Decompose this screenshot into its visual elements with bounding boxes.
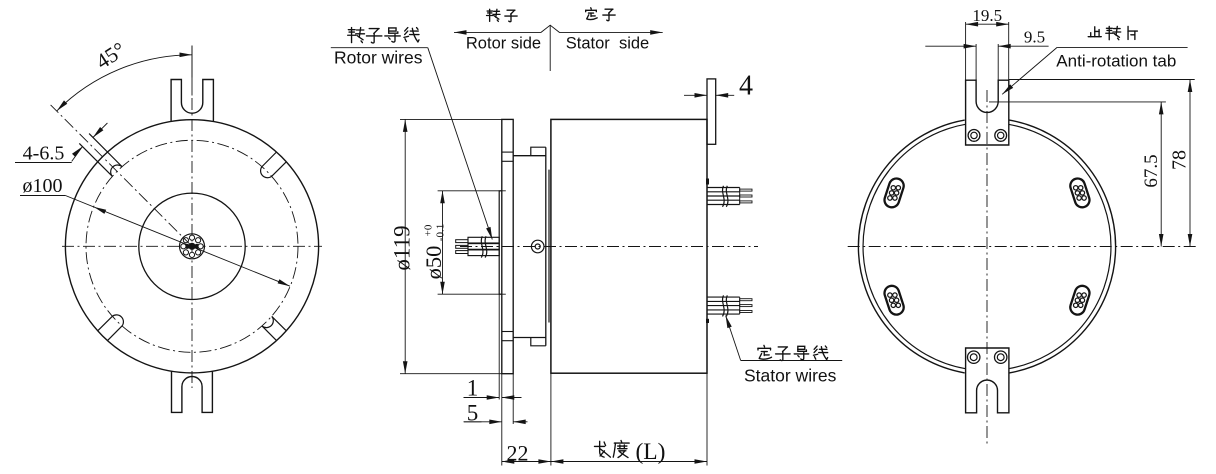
svg-text:4: 4 [739,71,753,102]
right view: vertical centerline [986,90,988,444]
left view: slot radial centerline 135deg [51,105,192,246]
middle view: anti-rotation tab (side, 4mm) [707,79,716,144]
middle view: Ø50 boss disc (1mm) on flange face [499,191,502,294]
dimension 45deg arc [191,46,193,78]
stator wires leader [741,360,843,362]
rotor wires leader [331,47,428,49]
dimension 4-6.5 width arrows [72,147,83,158]
middle view: rotor hub [513,155,546,157]
left view: horizontal centerline [62,245,322,247]
label 转子 (rotor) [487,9,500,21]
right view: bottom fork tab [966,348,1009,413]
dimension 9.5 [975,44,977,80]
svg-text:22: 22 [507,441,529,466]
svg-text:ø100: ø100 [23,175,63,197]
left view: wire bundle center cluster [188,243,195,250]
middle view: rotor flange plate (5mm) [502,119,513,373]
middle view: stator body Ø119 [551,119,707,373]
rotor wire lashing bands [481,236,483,257]
label 定子导线 (stator wires) [758,345,772,359]
dimension 67.5 [989,101,1166,103]
svg-text:+0: +0 [423,224,435,236]
right view: bottom tab screws [968,351,980,363]
middle view: flange hub-bore lines lower [502,331,513,333]
right view: wire slot upper-left [883,177,906,210]
svg-text:67.5: 67.5 [1141,154,1162,187]
svg-text:1: 1 [467,376,479,401]
left view: inner rotor circle Ø50 [139,193,245,299]
label 定子 (stator) [586,8,597,20]
left view: mounting slot lower-right [262,326,276,341]
dimension 长度(L) [706,373,708,465]
dimension 5 (flange thickness) [512,374,514,424]
dimension Ø119 left [400,118,502,120]
left view: center wire bundle outer circle [180,234,205,259]
svg-text:ø119: ø119 [390,225,415,270]
left view: top fork tab [171,80,213,122]
svg-text:(L): (L) [635,439,665,465]
stator wire root tick lower [706,319,709,323]
right view: inner rim circle [1009,124,1111,368]
left view: outer flange circle Ø119 [65,120,318,373]
left view: mounting slot upper-right [272,162,287,176]
right view: outer circle [1009,120,1115,373]
right view: wire slot upper-right [1068,177,1091,210]
dimension 19.5 [965,22,967,80]
label 长度(L) [594,441,610,457]
svg-text:Rotor side: Rotor side [466,35,541,53]
dimension Ø100 leader line [65,196,290,287]
svg-text:Stator side: Stator side [566,35,649,53]
svg-text:Rotor wires: Rotor wires [334,48,423,68]
middle view: stator inner step line [548,170,550,323]
right view: wire slot lower-right [1068,284,1091,317]
rotor wire bundle [468,237,499,243]
middle view: hub bottom key block [531,338,546,346]
left view: mounting slot lower-left [98,316,113,330]
left view: bolt circle Ø100 (dash-dot) [86,140,298,352]
left view: mounting slot upper-left (dimensioned 4-6.5) [89,134,122,167]
dimension 4 (tab thickness) [684,94,707,96]
label 转子导线 (rotor wires) [348,28,365,43]
dimension 22 [501,374,503,466]
dimension 78 [1009,79,1195,81]
anti-rotation tab leader [1057,46,1188,48]
left view: wire bundle wires [189,235,194,240]
svg-text:78: 78 [1169,150,1191,170]
rotor-stator boundary marker [454,25,663,32]
stator wire bundle lower [707,296,740,298]
svg-text:-0.1: -0.1 [435,224,447,241]
left view: vertical centerline [191,46,193,96]
right view: horizontal centerline [848,246,1197,248]
right view: wire slot lower-left [883,284,906,317]
middle view: horizontal centerline [460,246,758,248]
svg-text:Anti-rotation tab: Anti-rotation tab [1056,51,1176,70]
label 止转片 (anti-rotation tab) [1088,27,1101,37]
svg-text:Stator wires: Stator wires [744,366,837,386]
dimension Ø50 with tolerance [438,190,506,192]
stator wire root tick upper [706,179,709,185]
middle view: flange hub-bore lines upper [502,151,513,153]
dimension 1 (boss thickness) [498,294,500,399]
left view: bottom fork tab [172,371,213,412]
stator wire bundle upper [707,187,740,189]
svg-text:ø50: ø50 [421,246,446,280]
middle view: hub top key block [531,147,546,156]
right view: tab screws [968,130,980,142]
middle view: set screw on centerline [531,240,544,253]
right view: anti-rotation tab plate [966,80,1009,145]
svg-text:19.5: 19.5 [972,6,1002,25]
svg-text:4-6.5: 4-6.5 [23,143,65,165]
svg-text:9.5: 9.5 [1024,28,1045,47]
